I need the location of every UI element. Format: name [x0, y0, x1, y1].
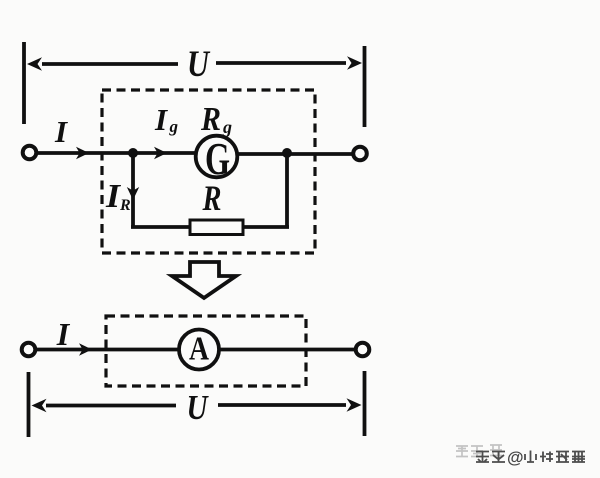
wire A to right terminal: [219, 348, 355, 352]
svg-text:I: I: [54, 114, 68, 149]
svg-text:I: I: [154, 102, 168, 137]
node left terminal (bottom circuit): [22, 343, 36, 357]
svg-text:R: R: [200, 101, 221, 138]
wire U dimension arrow right segment (top): [216, 61, 346, 65]
svg-text:U: U: [187, 388, 209, 427]
wire input (bottom circuit): [36, 348, 180, 352]
svg-text:A: A: [189, 331, 209, 368]
node left terminal (top circuit): [23, 146, 37, 160]
svg-text:g: g: [169, 117, 179, 136]
svg-text:@: @: [507, 448, 524, 467]
node U dimension right bar (bottom circuit): [363, 371, 367, 436]
svg-text:R: R: [119, 197, 131, 214]
svg-text:g: g: [222, 117, 232, 137]
wire G to right terminal: [238, 152, 354, 156]
node U dimension left bar (top circuit): [22, 42, 26, 124]
wire shunt branch bottom left: [131, 225, 190, 229]
node U dimension left bar (bottom circuit): [27, 372, 31, 437]
node dashed equivalence box (ammeter): [106, 316, 306, 386]
node dashed equivalence box (galvanometer network): [102, 90, 315, 253]
svg-text:I: I: [56, 316, 71, 352]
wire shunt branch bottom right: [243, 225, 289, 229]
watermark dark layer: [476, 451, 585, 463]
node current arrow I (bottom): [79, 343, 92, 355]
meter G (galvanometer): [196, 136, 238, 178]
node U dimension right bar (top circuit): [363, 46, 367, 127]
svg-text:U: U: [187, 44, 211, 85]
wire input (top circuit): [37, 151, 197, 155]
resistor R: [190, 220, 243, 235]
node current arrow I (top): [76, 147, 89, 159]
node right terminal (bottom circuit): [356, 343, 370, 357]
node current arrow IR (down): [127, 187, 139, 200]
node equivalence arrow (hollow down arrow): [172, 262, 236, 298]
node current arrow Ig: [154, 147, 167, 159]
wire shunt branch right vertical: [285, 153, 289, 227]
wire U arrow left segment (bottom): [46, 404, 176, 408]
svg-text:G: G: [205, 133, 230, 184]
watermark light layer: [456, 445, 502, 457]
node right terminal (top circuit): [353, 147, 367, 161]
node junction dot right: [282, 148, 292, 158]
svg-text:R: R: [202, 178, 222, 218]
node junction dot left: [128, 148, 138, 158]
wire U dimension arrow left segment (top): [42, 62, 178, 66]
wire shunt branch left vertical: [131, 153, 135, 227]
meter A (ammeter): [179, 330, 219, 370]
wire U arrow right segment (bottom): [218, 403, 346, 407]
